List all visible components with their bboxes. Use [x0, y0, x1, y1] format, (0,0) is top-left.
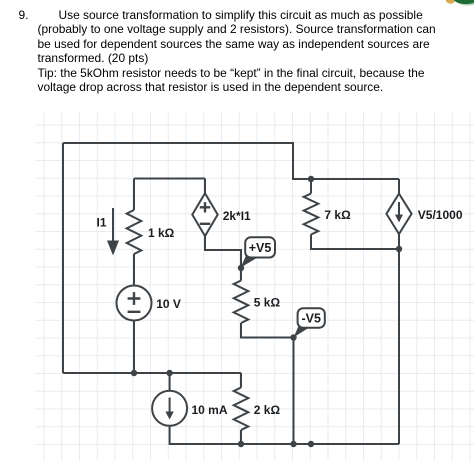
- svg-text:V5/1000: V5/1000: [418, 208, 463, 222]
- dependent source 2k*I1 diamond: [192, 193, 217, 236]
- junction dot 10mA top: [166, 370, 172, 376]
- wire 7k top lead: [310, 179, 312, 194]
- wire inner loop top: [134, 178, 205, 180]
- resistor R5k: [234, 281, 249, 324]
- current source I10mA circle: [152, 391, 187, 426]
- svg-text:+V5: +V5: [249, 241, 272, 255]
- svg-text:10 mA: 10 mA: [192, 403, 228, 417]
- junction dot 7k/V5 bottom: [396, 246, 402, 252]
- wire V5src top lead: [398, 179, 400, 194]
- resistor R2k: [234, 388, 249, 431]
- wire 2k bottom lead: [240, 430, 242, 444]
- V5/1000 arrow: [398, 202, 400, 215]
- wire 2k top lead: [240, 373, 242, 388]
- junction dot 2k bottom: [238, 441, 244, 447]
- wire 2k*I1 top lead: [204, 179, 206, 194]
- 10V minus sign: [128, 311, 141, 313]
- wire 10mA bottom: [170, 426, 399, 444]
- wire 7k bottom: [311, 235, 399, 250]
- wire 10V to bottom: [133, 321, 135, 374]
- svg-text:2k*I1: 2k*I1: [223, 209, 251, 223]
- resistor R7k: [304, 194, 319, 235]
- wire outer left: [62, 143, 64, 373]
- node +V5 dot: [238, 265, 244, 271]
- svg-text:7 kΩ: 7 kΩ: [324, 208, 351, 222]
- node -V5 dot: [290, 334, 296, 340]
- junction dot bottom extra: [308, 441, 314, 447]
- 10V plus sign: [128, 292, 141, 305]
- dependent source V5/1000 diamond: [386, 194, 411, 234]
- wire 1k top lead: [133, 179, 135, 211]
- svg-text:I1: I1: [97, 216, 107, 230]
- callout +V5: [241, 237, 275, 267]
- wire 1k to 10V: [133, 254, 135, 286]
- junction dot 7k top: [308, 176, 314, 182]
- svg-text:1 kΩ: 1 kΩ: [148, 226, 175, 240]
- wire main bottom: [63, 372, 241, 374]
- resistor R1 1k: [127, 210, 142, 254]
- wire 2k*I1 bottom to +V5 node: [205, 236, 241, 268]
- I1 current arrow: [112, 208, 114, 241]
- svg-text:10 V: 10 V: [156, 297, 181, 311]
- logo fragment top-right: [446, 0, 474, 6]
- wire -V5 node down: [293, 338, 295, 445]
- junction dot -V5 bottom: [290, 441, 296, 447]
- junction dot 10V bottom: [131, 370, 137, 376]
- svg-text:2 kΩ: 2 kΩ: [254, 403, 281, 417]
- wire 5k bottom to -V5 node: [241, 323, 294, 338]
- svg-text:-V5: -V5: [301, 311, 321, 325]
- 2k*I1 plus sign: [200, 202, 210, 212]
- problem statement text: [19, 8, 29, 22]
- 2k*I1 minus sign: [200, 223, 210, 225]
- callout -V5: [294, 308, 325, 337]
- wire +V5 node to 5k: [240, 268, 242, 281]
- wire outer top: [63, 143, 399, 179]
- wire 10mA top lead: [169, 373, 171, 391]
- source V1 10V circle: [117, 286, 152, 321]
- wire V5src bottom: [398, 234, 400, 444]
- svg-text:5 kΩ: 5 kΩ: [254, 296, 281, 310]
- 10mA arrow: [169, 398, 171, 413]
